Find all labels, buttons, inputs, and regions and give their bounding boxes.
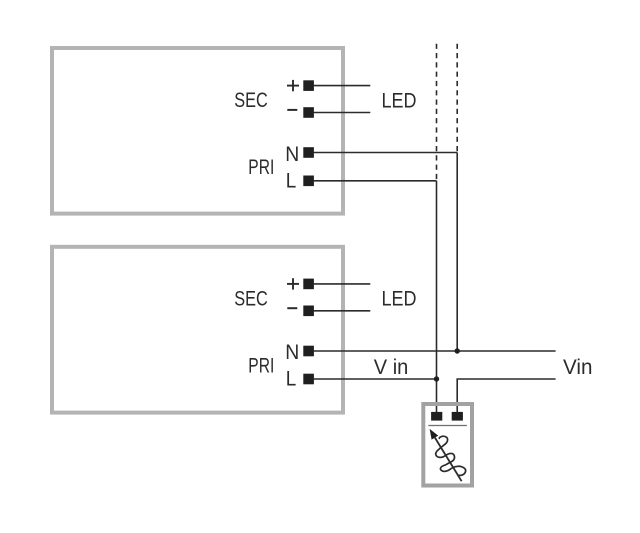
svg-text:SEC: SEC bbox=[234, 288, 267, 311]
label LED (driver U1 load) bbox=[382, 89, 417, 112]
terminal square N (driver U1) bbox=[303, 147, 314, 158]
label V in (net) bbox=[374, 356, 409, 379]
svg-text:PRI: PRI bbox=[248, 156, 274, 179]
junction node N2 (dot) bbox=[455, 348, 460, 353]
dashed continuation of net L (line A up) bbox=[436, 44, 438, 181]
terminal square L (driver U2) bbox=[303, 374, 314, 385]
dimmer D1 separator line bbox=[428, 425, 467, 427]
dimmer D1 arrow shaft bbox=[435, 438, 462, 482]
svg-text:SEC: SEC bbox=[234, 89, 267, 112]
junction node A (dot) bbox=[434, 376, 439, 381]
svg-text:L: L bbox=[286, 169, 297, 192]
dashed continuation of net N (line B up) bbox=[456, 44, 458, 153]
wire N (driver U2) to Vin bbox=[314, 350, 556, 352]
label L (driver U2 pin) bbox=[286, 368, 297, 391]
LED driver U1 enclosure bbox=[52, 48, 343, 214]
svg-text:N: N bbox=[285, 341, 299, 364]
label + (driver U1 SEC plus) bbox=[287, 80, 299, 91]
wire dimmer right terminal to Vin bbox=[457, 379, 555, 412]
wire SEC+ to LED (driver U1) bbox=[314, 85, 371, 87]
dimmer D1 arrowhead bbox=[430, 429, 439, 440]
svg-text:LED: LED bbox=[382, 89, 417, 112]
label SEC (driver U2) bbox=[234, 288, 267, 311]
svg-text:N: N bbox=[285, 143, 299, 166]
wire SEC- to LED (driver U1) bbox=[314, 112, 371, 114]
dimmer D1 terminal left bbox=[431, 412, 442, 421]
wire L (driver U1) to node A bbox=[314, 180, 437, 182]
svg-text:L: L bbox=[286, 368, 297, 391]
dimmer D1 enclosure bbox=[423, 404, 472, 486]
terminal square - (driver U2) bbox=[303, 306, 314, 317]
label SEC (driver U1) bbox=[234, 89, 267, 112]
svg-text:PRI: PRI bbox=[248, 354, 274, 377]
label N (driver U2 pin) bbox=[285, 341, 299, 364]
terminal square - (driver U1) bbox=[303, 107, 314, 118]
terminal square + (driver U2) bbox=[303, 279, 314, 290]
label PRI (driver U2) bbox=[248, 354, 274, 377]
wire SEC+ to LED (driver U2) bbox=[314, 283, 371, 285]
dimmer D1 terminal right bbox=[452, 412, 463, 421]
terminal square L (driver U1) bbox=[303, 176, 314, 187]
label Vin (supply) bbox=[563, 356, 593, 379]
svg-text:Vin: Vin bbox=[563, 356, 593, 379]
wire L (driver U2) to node A bbox=[314, 378, 437, 380]
label N (driver U1 pin) bbox=[285, 143, 299, 166]
LED driver U2 enclosure bbox=[52, 247, 343, 413]
terminal square + (driver U1) bbox=[303, 80, 314, 91]
wire SEC- to LED (driver U2) bbox=[314, 310, 371, 312]
label LED (driver U2 load) bbox=[382, 288, 417, 311]
label - (driver U2 SEC minus) bbox=[287, 307, 297, 309]
dimmer D1 coil symbol bbox=[436, 436, 466, 475]
wire N (driver U1) to node B bbox=[314, 152, 458, 154]
label + (driver U2 SEC plus) bbox=[287, 278, 299, 289]
svg-text:LED: LED bbox=[382, 288, 417, 311]
label - (driver U1 SEC minus) bbox=[287, 109, 297, 111]
label PRI (driver U1) bbox=[248, 156, 274, 179]
terminal square N (driver U2) bbox=[303, 346, 314, 357]
wire net N vertical (line B down to node N2) bbox=[456, 153, 458, 352]
wire net L vertical (line A down to dimmer) bbox=[436, 181, 438, 413]
label L (driver U1 pin) bbox=[286, 169, 297, 192]
svg-text:V in: V in bbox=[374, 356, 409, 379]
